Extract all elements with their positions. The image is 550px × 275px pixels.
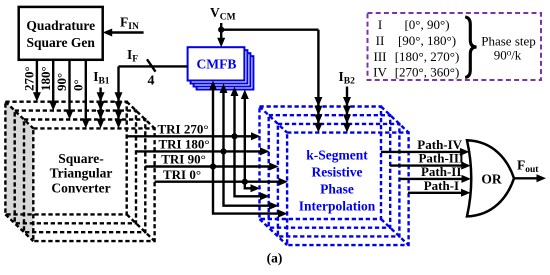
wire I_B1 bias into converter: [93, 69, 110, 128]
wire drop TRI 90 to layer4: [213, 167, 288, 218]
wire CMFB sense from TRI 90: [209, 81, 217, 167]
svg-text:0°: 0°: [71, 79, 86, 91]
wire TRI 180: [136, 137, 270, 156]
wire TRI 0: [155, 167, 288, 186]
block U2 Square-Triangular Converter (stacked dashed boxes): [5, 102, 154, 241]
block U1 Quadrature Square Gen: [19, 7, 103, 60]
wire Path-III: [390, 151, 471, 170]
svg-text:Path-II: Path-II: [421, 164, 461, 179]
svg-text:Square Gen: Square Gen: [27, 35, 96, 50]
svg-text:(a): (a): [267, 251, 283, 266]
block U3 k-Segment Resistive Phase Interpolation (stacked blue dashed boxes): [260, 107, 409, 246]
svg-text:Square-: Square-: [58, 151, 104, 166]
svg-text:4: 4: [148, 74, 155, 89]
svg-text:OR: OR: [481, 172, 502, 187]
svg-text:270°: 270°: [22, 66, 37, 91]
svg-text:k-Segment: k-Segment: [306, 148, 368, 163]
wire Path-II: [399, 164, 471, 183]
svg-text:Path-I: Path-I: [424, 178, 459, 193]
wire TRI 270: [127, 122, 261, 141]
wire drop TRI 0 to layer1: [245, 182, 260, 193]
wire I_F from CMFB to converter (bus of 4): [115, 47, 188, 128]
svg-text:TRI 180°: TRI 180°: [158, 137, 209, 152]
svg-text:Triangular: Triangular: [50, 166, 113, 181]
wire CMFB sense from TRI 270: [231, 87, 239, 137]
wire V_CM: [210, 5, 322, 133]
svg-text:TRI 0°: TRI 0°: [163, 167, 201, 182]
wire CMFB sense from TRI 0: [241, 90, 249, 182]
wire Path-I: [408, 178, 471, 197]
wire F_IN input: [103, 14, 144, 36]
svg-text:II: II: [376, 33, 385, 48]
svg-text:TRI 270°: TRI 270°: [157, 122, 208, 137]
svg-text:Phase step: Phase step: [481, 34, 536, 49]
wire Path-IV: [381, 137, 469, 156]
svg-text:180°: 180°: [38, 66, 53, 91]
label U3 text: [299, 148, 376, 214]
svg-text:I: I: [378, 17, 382, 32]
svg-text:Converter: Converter: [51, 180, 110, 195]
svg-text:90°: 90°: [54, 73, 69, 91]
wire F_out output: [514, 158, 546, 183]
wire drop TRI 180 to layer3: [224, 151, 279, 209]
svg-text:[0°, 90°): [0°, 90°): [404, 17, 449, 32]
svg-text:Phase: Phase: [320, 182, 354, 197]
svg-text:[180°, 270°): [180°, 270°): [395, 49, 460, 64]
label U2 text: [50, 151, 113, 196]
wire CMFB sense from TRI 180: [220, 84, 228, 152]
svg-text:IV: IV: [373, 65, 387, 80]
block U4 CMFB (stacked blue boxes): [188, 47, 254, 89]
svg-text:[270°, 360°): [270°, 360°): [395, 65, 460, 80]
svg-text:[90°, 180°): [90°, 180°): [398, 33, 456, 48]
legend box (phase ranges): [368, 13, 542, 80]
svg-text:TRI 90°: TRI 90°: [161, 152, 206, 167]
svg-text:CMFB: CMFB: [196, 57, 236, 72]
wire I_B2 bias into interpolator: [339, 69, 356, 133]
wire TRI 90: [145, 152, 278, 171]
svg-text:Interpolation: Interpolation: [299, 199, 376, 214]
wire phase 0: [71, 60, 90, 128]
wire phase 180: [38, 60, 57, 110]
svg-text:Resistive: Resistive: [312, 165, 363, 180]
wire phase 90: [54, 60, 73, 119]
svg-text:III: III: [374, 49, 387, 64]
wire drop TRI 270 to layer2: [235, 136, 270, 200]
wire phase 270 (quad out): [22, 60, 41, 101]
gate U5 OR: [467, 140, 514, 216]
svg-text:Quadrature: Quadrature: [26, 18, 95, 33]
